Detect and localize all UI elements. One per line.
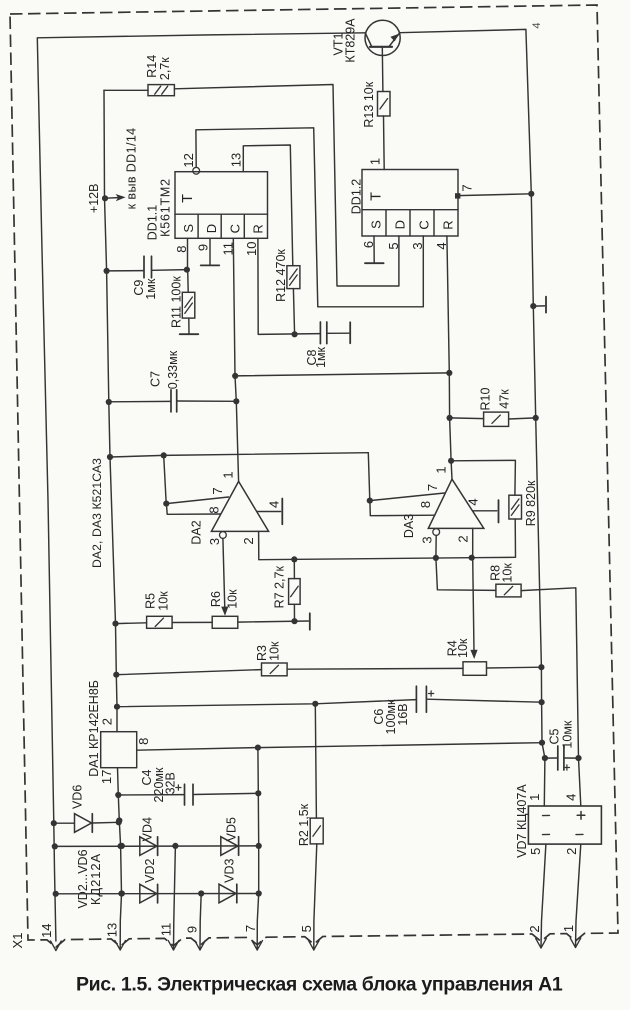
svg-text:VD6: VD6 <box>70 785 84 809</box>
wire +12V to R3 <box>116 670 261 675</box>
capacitor C6 100mk 16V <box>372 686 541 734</box>
wire DA3 pin 2 to R4 wiper <box>470 528 477 659</box>
svg-text:2: 2 <box>241 537 256 544</box>
wire +12V to R5 <box>116 622 147 625</box>
ground at C8 <box>349 322 351 343</box>
svg-text:C: C <box>227 224 242 233</box>
ground at DA3 pin 4 <box>498 500 500 522</box>
svg-text:1мк: 1мк <box>314 346 328 368</box>
wire VT1 emitter to right rail down to VD7 pin 1 <box>399 29 545 806</box>
wire DD1.1 pin 13 to R12 top <box>243 145 292 266</box>
inversion bubble DD1.1 pin 12 <box>193 167 200 174</box>
svg-text:DD1.1: DD1.1 <box>145 205 159 240</box>
junction dots on pin2/pin3 link <box>291 555 475 563</box>
resistor R8 10k <box>489 563 522 597</box>
diode VD2 <box>140 858 158 902</box>
junction dot R2 top <box>312 701 318 707</box>
svg-text:0,33мк: 0,33мк <box>166 350 180 389</box>
svg-text:Т: Т <box>368 192 384 201</box>
svg-text:32В: 32В <box>164 772 178 794</box>
wire DA3 pin 4 to ground <box>473 510 497 512</box>
svg-text:1: 1 <box>527 794 542 801</box>
junction dots on DA3 output net <box>446 370 454 464</box>
svg-text:7: 7 <box>210 487 225 494</box>
wire VD2/VD3 row <box>56 893 259 895</box>
wire R6 to ground with R7 tap <box>238 621 309 622</box>
svg-text:2: 2 <box>527 925 542 932</box>
X1 pin 5 arrow <box>309 941 314 951</box>
capacitor C4 220mk 32V <box>118 767 258 805</box>
svg-text:1: 1 <box>220 471 235 478</box>
svg-text:9: 9 <box>195 244 210 251</box>
svg-text:DA2: DA2 <box>189 520 203 544</box>
wire DD1.1 pin 12 to DD1.2 pin 3 (C) <box>196 128 423 307</box>
svg-text:4: 4 <box>531 22 543 28</box>
junction dots on right rail <box>528 191 548 762</box>
svg-text:D: D <box>204 224 219 233</box>
svg-text:10к: 10к <box>226 589 240 609</box>
diode VD5 <box>221 817 239 855</box>
wire strobe feed y=455 from +12V <box>110 453 368 457</box>
wire DA1 pin 8 to right rail <box>137 743 542 751</box>
ground at DA2 pin 4 <box>281 499 283 525</box>
resistor R5 10k <box>144 591 173 629</box>
resistor R12 470k <box>274 249 300 302</box>
wire R14 right to DD1.2 pin 5 (D) <box>174 85 399 287</box>
wire VT1 base to R13 to DD1.2 pin 1 <box>382 47 384 170</box>
X1 pin 9 arrow <box>195 941 200 951</box>
svg-text:DA2, DA3 К521СА3: DA2, DA3 К521СА3 <box>90 458 104 568</box>
capacitor C9 1mk with wires <box>107 256 188 300</box>
diode VD6 KD212A <box>54 785 119 833</box>
junction dots on +12V rail <box>102 195 120 710</box>
resistor R13 10k <box>362 81 390 127</box>
wire DD1.1 pin 8 stub <box>187 238 189 269</box>
svg-text:8: 8 <box>207 506 222 513</box>
capacitor C8 1mk <box>305 322 328 368</box>
X1 pin 1 arrow <box>570 938 575 948</box>
wire +12V rail from R14 down to DA1 pin 2 <box>104 90 117 731</box>
resistor R14 2,7k <box>145 55 175 96</box>
wire DA2 pin 2 to R7 junction and to DA3 pin 3 <box>259 531 472 559</box>
op-amp comparator DA3 K521SA3 <box>402 479 484 538</box>
junction dot DA3 strobe <box>367 498 373 504</box>
junction dots on pin 11 net <box>232 373 239 405</box>
svg-text:VD2: VD2 <box>143 858 157 882</box>
junction dot R12/C8 net <box>292 331 298 337</box>
resistor R3 10k <box>255 641 287 676</box>
junction dot C9/R11/pin8 <box>184 267 190 273</box>
ground at DD1.1 pin 9 <box>201 264 220 266</box>
wire DA2 pins 7,8 strobe <box>164 455 229 514</box>
svg-text:5: 5 <box>528 848 543 855</box>
wire R5 to R6 <box>172 621 212 623</box>
label VD2...VD6 KD212A <box>76 849 103 908</box>
svg-text:R7 2,7к: R7 2,7к <box>272 566 286 609</box>
diode VD4 <box>140 817 158 855</box>
svg-text:C7: C7 <box>149 371 163 387</box>
op-amp comparator DA2 K521SA3 <box>189 481 268 544</box>
svg-text:VD5: VD5 <box>225 817 239 841</box>
svg-text:9: 9 <box>185 926 200 933</box>
svg-text:D: D <box>393 220 408 229</box>
X1 pin 11 arrow <box>168 941 173 951</box>
X1 pin 13 arrow <box>115 941 120 951</box>
svg-text:R2 1,5к: R2 1,5к <box>297 803 311 846</box>
wire DD1.1 pin 9 to ground <box>209 238 211 265</box>
node +12V with arrow to DD1/14 <box>87 184 126 214</box>
resistor R10 47k pull-up <box>450 387 536 426</box>
wire DA3 pin 3 down to R8 <box>436 535 496 590</box>
svg-text:16В: 16В <box>396 703 410 725</box>
svg-text:1: 1 <box>367 158 382 165</box>
wire X1 pin 11 from VD4/VD5 junction <box>174 846 176 950</box>
wire VD7 pin 2 to X1 pin 1 <box>576 844 581 947</box>
svg-text:R14: R14 <box>145 55 159 78</box>
svg-text:13: 13 <box>104 923 119 937</box>
svg-text:8: 8 <box>418 501 433 508</box>
svg-text:2: 2 <box>99 718 114 725</box>
svg-text:S: S <box>181 224 196 233</box>
svg-text:4: 4 <box>563 794 578 801</box>
wire VD7 pin 5 to X1 pin 2 <box>541 844 546 947</box>
wire DA1 pin 17 down (X1 pin 13 line) <box>118 768 122 950</box>
flip-flop DD1.2 K561TM2 box <box>362 170 458 237</box>
svg-text:10к: 10к <box>501 563 515 583</box>
ground at DD1.2 pin 6 <box>365 262 384 264</box>
wire DD1.2 pin 4 / DA3 output vertical <box>447 236 452 479</box>
junction dot C5 right / R8 rail <box>575 755 581 761</box>
svg-text:R10: R10 <box>478 387 492 410</box>
X1 pin 2 arrow <box>536 939 541 949</box>
wire DA2 pin 4 to ground <box>257 511 281 513</box>
wire R3 to R4 <box>287 667 463 670</box>
resistor R11 100k <box>170 270 195 334</box>
svg-text:C: C <box>417 220 432 229</box>
flip-flop DD1.1 K561TM2 box <box>175 172 268 239</box>
ground after R6/R7 <box>309 613 311 629</box>
svg-text:1: 1 <box>434 466 449 473</box>
junction dots on pin 7 line <box>255 745 262 797</box>
wire VD4/VD5 row <box>55 845 259 848</box>
svg-text:C5: C5 <box>548 728 562 744</box>
svg-text:8: 8 <box>174 246 189 253</box>
wire X1 pin 9 from VD2/VD3 junction <box>200 894 201 950</box>
svg-text:DA3: DA3 <box>402 514 416 538</box>
wire DA2/DA3 outputs link y=375 <box>235 373 449 376</box>
capacitor C7 0,33mk with wires <box>108 350 236 412</box>
svg-text:R9 820к: R9 820к <box>524 480 538 526</box>
svg-text:47к: 47к <box>498 389 512 409</box>
transistor VT1 KT829A <box>332 18 401 63</box>
wire DD1.1 pin 11 / DA2 output vertical <box>233 238 238 481</box>
wire x=258 net: DA1 pin8 row down to X1 pin 7 <box>257 748 259 950</box>
svg-text:Рис. 1.5. Электрическая схема: Рис. 1.5. Электрическая схема блока упра… <box>76 974 563 996</box>
junction dots VD2 row <box>53 890 262 897</box>
junction dots on pin 17 line <box>115 792 124 897</box>
X1 pin 7 arrow <box>252 941 257 951</box>
wire R4 to right rail <box>487 666 542 669</box>
svg-text:S: S <box>369 220 384 229</box>
svg-text:R: R <box>250 224 265 233</box>
wire +12V node to R2 and C6 <box>117 700 416 707</box>
svg-text:10к: 10к <box>456 638 470 658</box>
wire DD1.2 pin 7 to right rail <box>455 193 531 198</box>
svg-text:+12В: +12В <box>87 184 101 214</box>
svg-text:17: 17 <box>99 770 114 784</box>
svg-text:5: 5 <box>386 242 401 249</box>
svg-text:3: 3 <box>410 242 425 249</box>
svg-text:к выв DD1/14: к выв DD1/14 <box>124 127 138 209</box>
svg-text:7: 7 <box>243 925 258 932</box>
svg-text:7: 7 <box>425 484 440 491</box>
wire R8 right to X1 pin 1 rail <box>521 588 581 806</box>
svg-text:1мк: 1мк <box>144 278 158 300</box>
svg-text:10к: 10к <box>268 641 282 661</box>
label DD1.1 K561TM2 <box>145 178 172 240</box>
ground stub on right rail <box>533 297 546 313</box>
svg-text:8: 8 <box>136 738 151 745</box>
junction dots DA2 strobe <box>161 452 170 506</box>
svg-text:2: 2 <box>564 848 579 855</box>
svg-text:11: 11 <box>158 923 173 937</box>
svg-text:R13 10к: R13 10к <box>362 81 376 127</box>
wire R12 bottom to pin 10 net <box>293 289 294 335</box>
svg-text:5: 5 <box>299 925 314 932</box>
svg-text:DD1.2: DD1.2 <box>349 179 363 214</box>
resistor R6 10k trimmer <box>209 589 239 628</box>
wire DD1.1 pin 10 (R) to C8 <box>258 238 320 334</box>
svg-text:10: 10 <box>244 242 259 256</box>
svg-text:X1: X1 <box>10 933 25 949</box>
svg-text:R11 100к: R11 100к <box>170 276 184 328</box>
svg-text:VD4: VD4 <box>140 817 154 841</box>
svg-text:КТ829А: КТ829А <box>344 18 358 63</box>
svg-text:1: 1 <box>561 925 576 932</box>
resistor R2 1,5k to X1 pin 5 <box>297 704 323 950</box>
svg-text:14: 14 <box>39 923 54 937</box>
svg-text:7: 7 <box>459 184 474 191</box>
svg-text:10мк: 10мк <box>561 720 575 748</box>
wire R14 left lead <box>104 89 148 91</box>
svg-text:Т: Т <box>180 194 196 203</box>
voltage regulator DA1 KR142EN8B <box>87 680 137 777</box>
svg-text:3: 3 <box>420 536 435 543</box>
svg-text:2,7к: 2,7к <box>158 57 172 80</box>
svg-text:DA1 КР142ЕН8Б: DA1 КР142ЕН8Б <box>87 680 101 777</box>
diode VD3 <box>219 858 237 902</box>
svg-text:КД212А: КД212А <box>88 853 103 905</box>
svg-text:4: 4 <box>267 501 282 508</box>
wire DD1.2 pin 6 to ground <box>373 236 375 263</box>
svg-text:4: 4 <box>465 498 480 505</box>
wire common/collector net: X1 pin 14 up left side and along top to VT1 <box>37 33 365 941</box>
svg-text:3: 3 <box>207 538 222 545</box>
svg-text:R6: R6 <box>209 591 223 607</box>
svg-text:VD3: VD3 <box>223 858 237 882</box>
junction dot R7 bottom <box>291 618 297 624</box>
svg-text:12: 12 <box>181 153 196 167</box>
svg-text:13: 13 <box>228 153 243 167</box>
junction dots VD4 row <box>52 843 262 850</box>
svg-text:R12 470к: R12 470к <box>274 249 288 302</box>
capacitor C5 10mk <box>545 720 579 770</box>
svg-text:К561ТМ2: К561ТМ2 <box>158 178 172 237</box>
X1 pin 14 arrow <box>51 941 56 951</box>
resistor R7 2,7k <box>272 559 300 621</box>
svg-text:10к: 10к <box>156 591 170 611</box>
wire DA2 pin 3 to R6 wiper <box>221 538 228 616</box>
svg-text:2: 2 <box>456 535 471 542</box>
ground at R11 <box>180 333 199 335</box>
bridge rectifier VD7 KC407A <box>515 784 602 858</box>
svg-text:R: R <box>441 220 456 229</box>
wire C8 to ground <box>327 332 349 334</box>
wire DA3 pins 7,8 strobe <box>368 453 444 516</box>
resistor R9 820k feedback <box>451 460 538 557</box>
junction dots VD6 row <box>51 819 122 826</box>
potentiometer R4 10k <box>445 638 486 675</box>
